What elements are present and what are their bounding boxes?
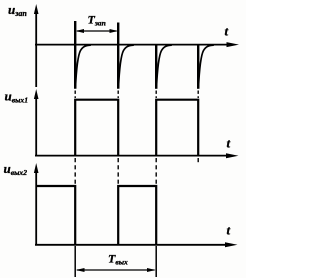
dashed alignment line x=118 (baseline1 to u_vyh2 top)	[117, 158, 119, 185]
extension line for T_vyh at x=156	[155, 246, 157, 277]
node t-axis-1 arrowhead	[227, 42, 240, 47]
dimension arrow T_vyh	[77, 269, 155, 271]
node t-axis-2 arrowhead	[226, 153, 239, 158]
node axis-u-vyh2 : vertical axis of u_vyh2	[35, 171, 37, 244]
wire t-axis-1 : horizontal time axis of u_zap	[35, 44, 230, 46]
svg-text:uзап: uзап	[8, 2, 27, 18]
spike 1 recovery curve	[75, 45, 90, 88]
dimension arrow T_zap between spike1 and spike2	[77, 30, 117, 32]
node axis-u-vyh1 : vertical axis of u_vyh1	[35, 97, 37, 155]
dashed alignment line x=156 (baseline1 to u_vyh2 top)	[155, 158, 157, 185]
svg-text:t: t	[225, 24, 229, 39]
spike 2 recovery curve	[118, 45, 133, 88]
waveform u_vyh1 square pulses	[75, 100, 198, 156]
svg-text:uвых1: uвых1	[5, 89, 29, 105]
node axis-u-vyh1 arrowhead	[34, 89, 39, 99]
spike 3 of u_zap	[155, 45, 157, 89]
spike 3 recovery curve	[156, 45, 171, 88]
svg-text:Tзап: Tзап	[88, 13, 106, 28]
svg-text:uвых2: uвых2	[4, 161, 28, 177]
dashed alignment line x=75 (baseline1 to u_vyh2 top)	[74, 158, 76, 185]
wire t-axis-2 : horizontal time axis of u_vyh1	[35, 155, 229, 157]
spike 4 recovery curve	[198, 45, 213, 88]
spike 1 of u_zap (vertical edge with Tzap extension above)	[74, 21, 76, 89]
spike 2 of u_zap (vertical edge with Tzap extension above)	[117, 23, 119, 89]
extension line for T_vyh at x=75	[74, 246, 76, 277]
svg-text:t: t	[227, 136, 231, 151]
svg-text:Tвых: Tвых	[108, 252, 128, 267]
node axis-u-zap arrowhead	[34, 4, 39, 14]
waveform u_vyh2 square pulses	[36, 186, 156, 245]
node axis-u-zap : vertical axis of u_zap	[35, 12, 37, 87]
svg-text:t: t	[227, 223, 231, 238]
wire t-axis-3 : horizontal time axis of u_vyh2	[35, 244, 228, 246]
node axis-u-vyh2 arrowhead	[34, 163, 39, 173]
node t-axis-3 arrowhead	[225, 242, 238, 247]
dashed stub x=198 below baseline1	[197, 158, 199, 164]
dashed alignment line x=198 (spike4 to pulse top)	[197, 91, 199, 99]
dashed alignment line x=156 (spike3 to pulse top)	[155, 91, 157, 99]
dashed alignment line x=118 (spike2 to pulse top)	[117, 91, 119, 99]
dashed alignment line x=75 (spike1 to pulse top)	[74, 91, 76, 99]
spike 4 of u_zap	[197, 45, 199, 89]
